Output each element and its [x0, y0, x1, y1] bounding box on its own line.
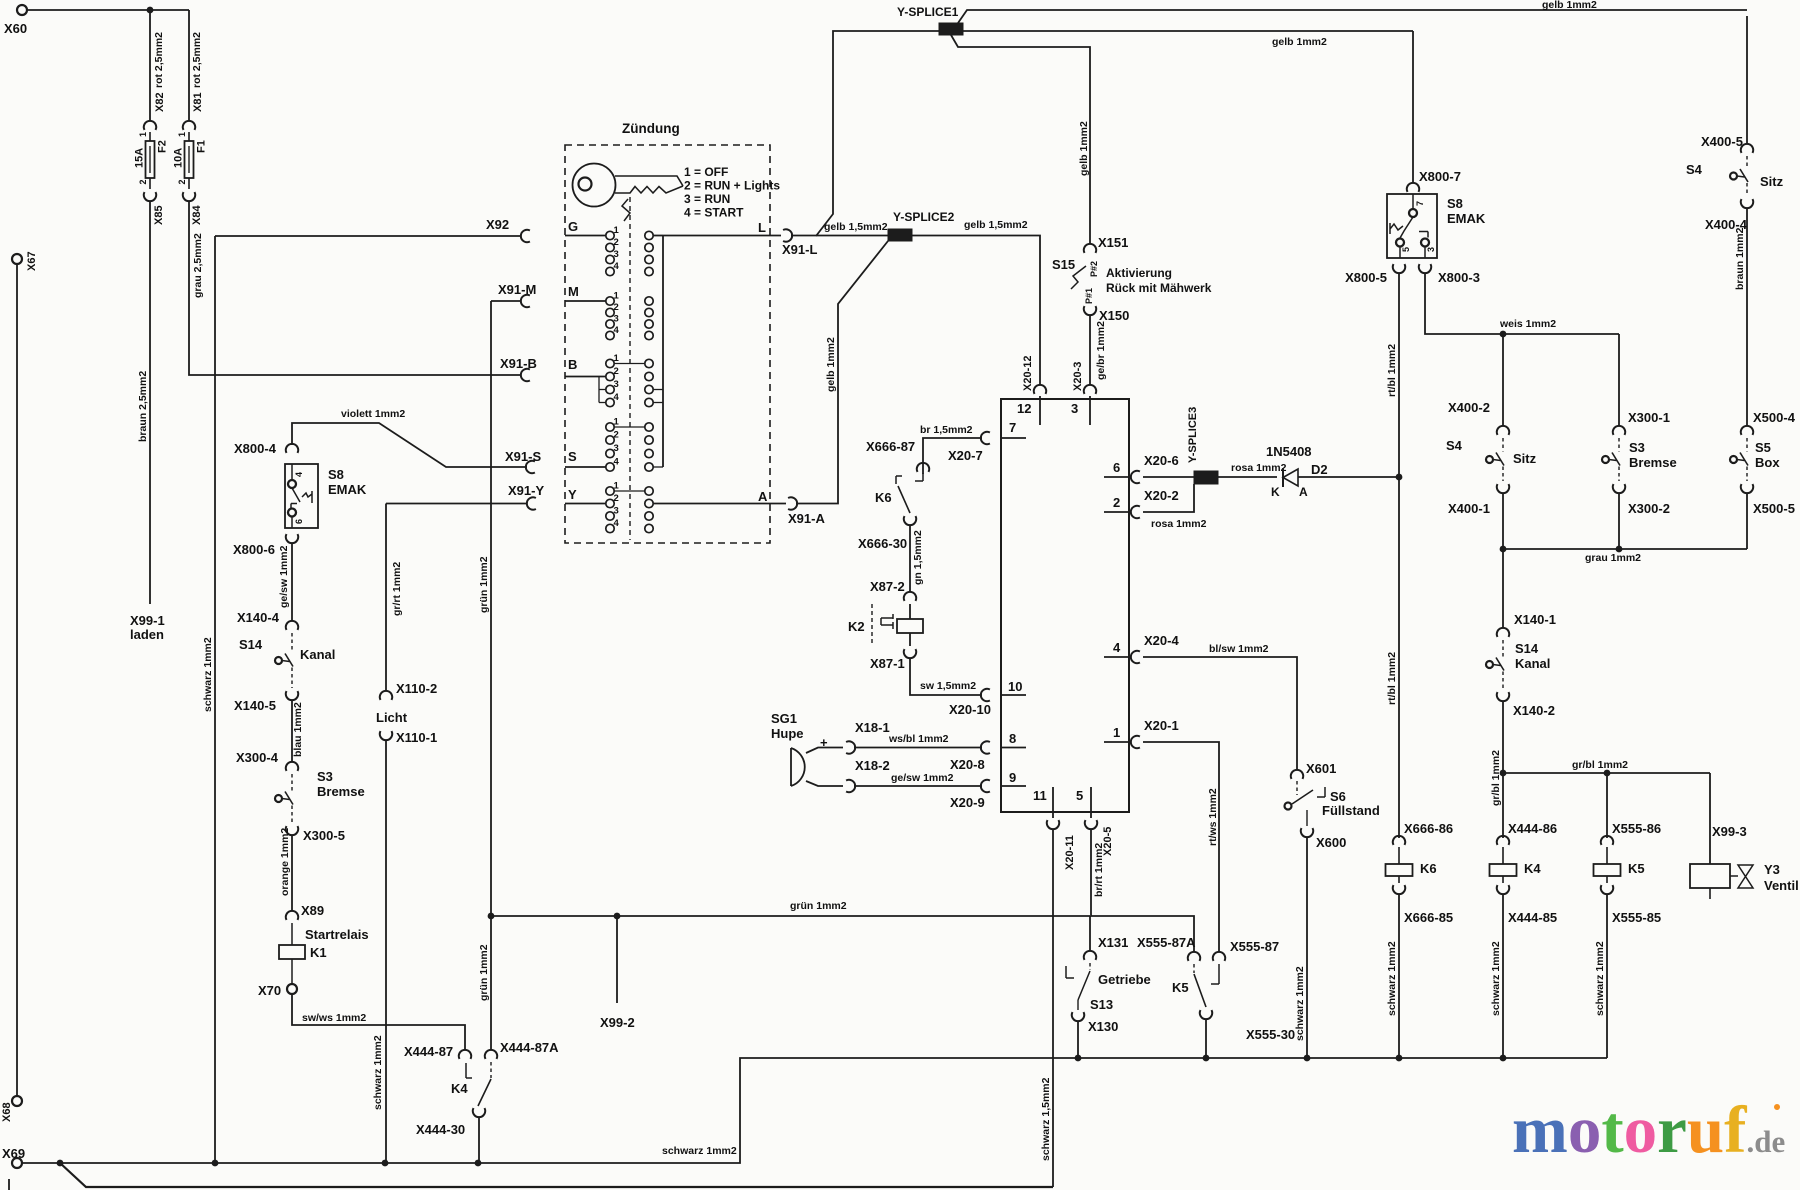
svg-text:ws/bl 1mm2: ws/bl 1mm2 — [888, 733, 949, 745]
svg-text:F1: F1 — [196, 140, 208, 153]
wire br/rt X20-5 to X555-87A — [1091, 829, 1194, 952]
svg-text:2: 2 — [614, 366, 619, 377]
svg-text:Licht: Licht — [376, 710, 408, 725]
svg-text:schwarz 1mm2: schwarz 1mm2 — [1594, 941, 1606, 1016]
wire X20-6 to Y-SPLICE3 — [1143, 476, 1194, 478]
svg-text:gr/rt 1mm2: gr/rt 1mm2 — [391, 562, 403, 616]
fuse F1 10A — [183, 121, 195, 130]
splice Y-SPLICE3 — [1194, 471, 1218, 484]
svg-text:2: 2 — [177, 179, 187, 184]
svg-text:Kanal: Kanal — [1515, 656, 1550, 671]
svg-text:X151: X151 — [1098, 235, 1128, 250]
svg-text:Getriebe: Getriebe — [1098, 972, 1151, 987]
pin 8 stub — [1001, 747, 1026, 749]
svg-text:P#2: P#2 — [1089, 261, 1099, 277]
svg-text:ge/br 1mm2: ge/br 1mm2 — [1095, 321, 1107, 380]
pin 11 stub — [1052, 787, 1054, 818]
wire gelb to X800-7 — [1412, 31, 1414, 183]
wire X300-2 to grau — [1618, 493, 1620, 549]
svg-text:schwarz 1mm2: schwarz 1mm2 — [372, 1035, 384, 1110]
svg-text:X60: X60 — [4, 21, 27, 36]
svg-text:gr/bl 1mm2: gr/bl 1mm2 — [1490, 750, 1502, 806]
wire horn to X18-1 — [806, 748, 843, 754]
svg-text:X91-Y: X91-Y — [508, 483, 544, 498]
svg-text:S14: S14 — [239, 637, 263, 652]
svg-text:K1: K1 — [310, 945, 327, 960]
svg-text:X666-87: X666-87 — [866, 439, 915, 454]
svg-text:9: 9 — [1009, 770, 1016, 785]
wire Y-SPLICE1 branch to X151 — [951, 35, 1090, 244]
svg-text:X91-S: X91-S — [505, 449, 541, 464]
connector X91-M — [521, 295, 530, 307]
relay contact K4 — [490, 1062, 492, 1078]
svg-text:S3: S3 — [1629, 440, 1645, 455]
svg-text:X20-8: X20-8 — [950, 757, 985, 772]
wire X92 row — [215, 235, 521, 237]
switch S4 Sitz (mid) — [1497, 426, 1509, 435]
wire D2 to rt/bl — [1298, 476, 1396, 478]
wire X666-85 to bus — [1398, 894, 1400, 1058]
svg-text:X110-1: X110-1 — [396, 730, 437, 745]
wire X130 to bus — [1077, 1021, 1079, 1058]
svg-text:K6: K6 — [875, 490, 892, 505]
svg-text:X85: X85 — [153, 205, 165, 225]
wire blau 1mm2 — [291, 700, 293, 762]
connector X18-2 — [846, 780, 855, 792]
wire B row3 link — [653, 389, 663, 391]
svg-text:X87-2: X87-2 — [870, 579, 905, 594]
svg-text:1: 1 — [1113, 725, 1120, 740]
wire X60 feed — [27, 9, 189, 11]
wire X67-X68 — [16, 264, 18, 1096]
key pointer — [622, 199, 630, 221]
svg-text:S8: S8 — [1447, 196, 1463, 211]
svg-text:X91-A: X91-A — [788, 511, 825, 526]
svg-text:4: 4 — [614, 457, 620, 468]
svg-text:weis 1mm2: weis 1mm2 — [1499, 318, 1556, 330]
svg-text:grün 1mm2: grün 1mm2 — [790, 900, 847, 912]
wire Y-SPLICE3 to D2 — [1218, 476, 1277, 478]
wire horn to X18-2 — [806, 781, 843, 786]
svg-text:X800-4: X800-4 — [234, 441, 277, 456]
svg-text:grau 1mm2: grau 1mm2 — [1585, 552, 1641, 564]
wire Y row1 link — [614, 490, 645, 492]
svg-text:Y-SPLICE3: Y-SPLICE3 — [1187, 407, 1199, 463]
svg-text:1: 1 — [177, 132, 187, 137]
svg-text:rosa 1mm2: rosa 1mm2 — [1151, 518, 1207, 530]
svg-text:X99-3: X99-3 — [1712, 824, 1747, 839]
svg-text:X400-5: X400-5 — [1701, 134, 1743, 149]
svg-text:gelb 1mm2: gelb 1mm2 — [1272, 36, 1327, 48]
svg-text:X140-5: X140-5 — [234, 698, 276, 713]
svg-text:A: A — [758, 489, 768, 504]
svg-text:orange 1mm2: orange 1mm2 — [279, 828, 291, 896]
wire X91-Y feed — [386, 503, 527, 505]
wire gruen X91-M to X444-87A — [490, 301, 492, 1050]
wire S row in — [565, 466, 606, 468]
relay contact K5 — [1193, 964, 1195, 973]
svg-text:S: S — [568, 449, 577, 464]
svg-text:1: 1 — [138, 132, 148, 137]
switch S14 Kanal (right) — [1497, 628, 1509, 637]
svg-text:Zündung: Zündung — [622, 121, 680, 136]
wire rt/bl X800-5 to K6 coil — [1398, 273, 1400, 838]
wire gr/rt to X110-2 — [385, 504, 387, 692]
connector X91-S — [526, 461, 535, 473]
wire X84 grau to X91-B — [189, 201, 521, 375]
svg-text:1: 1 — [614, 353, 620, 364]
connector X151 — [1084, 244, 1096, 253]
svg-text:11: 11 — [1033, 788, 1047, 803]
svg-text:SG1: SG1 — [771, 711, 797, 726]
svg-text:X140-1: X140-1 — [1514, 612, 1556, 627]
pin 7 stub — [1001, 437, 1026, 439]
svg-text:X444-87: X444-87 — [404, 1044, 453, 1059]
svg-text:X500-5: X500-5 — [1753, 501, 1795, 516]
svg-text:X400-2: X400-2 — [1448, 400, 1490, 415]
ignition contacts row M — [606, 297, 614, 305]
svg-text:X666-85: X666-85 — [1404, 910, 1453, 925]
switch S8 EMAK (bottom) — [285, 464, 318, 528]
svg-text:X18-1: X18-1 — [855, 720, 890, 735]
wire X91-M stub — [491, 300, 521, 302]
svg-text:X150: X150 — [1099, 308, 1129, 323]
pin 3 stub — [1089, 396, 1091, 425]
svg-text:S5: S5 — [1755, 440, 1771, 455]
terminal X69 — [12, 1158, 22, 1168]
svg-text:D2: D2 — [1311, 462, 1328, 477]
connector X91-Y — [527, 497, 536, 509]
wire Y row in — [565, 503, 606, 505]
svg-text:X500-4: X500-4 — [1753, 410, 1796, 425]
svg-text:10A: 10A — [173, 148, 185, 168]
wire stub bottom-left — [8, 1179, 10, 1190]
svg-text:X69: X69 — [2, 1146, 25, 1161]
svg-text:4: 4 — [614, 518, 620, 529]
connector X666-30 — [904, 516, 916, 525]
svg-text:Aktivierung: Aktivierung — [1106, 266, 1172, 280]
junction weis/S4 — [1500, 331, 1507, 338]
svg-text:2: 2 — [614, 237, 619, 248]
switch S6 Fuellstand — [1296, 781, 1298, 795]
relay coil K5 — [1601, 836, 1613, 845]
svg-text:K5: K5 — [1172, 980, 1189, 995]
relay coil K4 — [1497, 836, 1509, 845]
switch S14 Kanal (left) — [286, 621, 298, 630]
svg-text:schwarz 1mm2: schwarz 1mm2 — [1490, 941, 1502, 1016]
svg-text:X600: X600 — [1316, 835, 1346, 850]
wire bottom return — [60, 1163, 1053, 1187]
wire ge/sw X800-6 — [291, 543, 293, 621]
svg-text:X555-86: X555-86 — [1612, 821, 1661, 836]
svg-text:1: 1 — [614, 291, 620, 302]
svg-text:X300-4: X300-4 — [236, 750, 279, 765]
ignition contacts row G — [606, 231, 614, 239]
wire gelb to X400-5 — [1746, 16, 1748, 144]
connector X91-A — [788, 497, 797, 509]
svg-text:7: 7 — [1009, 420, 1016, 435]
svg-text:X67: X67 — [26, 251, 38, 271]
connector X444-87 — [459, 1050, 471, 1059]
svg-text:K: K — [1271, 485, 1280, 499]
svg-text:braun 2,5mm2: braun 2,5mm2 — [137, 371, 149, 442]
wire X91-A gelb — [796, 241, 888, 504]
connector X91-L — [783, 229, 792, 241]
svg-text:X20-6: X20-6 — [1144, 453, 1179, 468]
svg-text:Box: Box — [1755, 455, 1780, 470]
terminal X70 — [287, 984, 297, 994]
svg-text:rt/bl 1mm2: rt/bl 1mm2 — [1386, 652, 1398, 705]
wire braun X400-4 to X500-4 — [1746, 208, 1748, 426]
svg-text:10: 10 — [1008, 679, 1022, 694]
svg-text:sw/ws 1mm2: sw/ws 1mm2 — [302, 1012, 366, 1024]
junction bus/K5 contact — [1203, 1055, 1210, 1062]
connector X20-1 — [1131, 736, 1140, 748]
wire X150 to X20-3 — [1089, 315, 1091, 385]
wire X666-87 to X20-7 — [923, 438, 982, 474]
svg-text:Bremse: Bremse — [1629, 455, 1677, 470]
svg-text:X555-87A: X555-87A — [1137, 935, 1196, 950]
wire weis X800-3 — [1425, 273, 1619, 334]
svg-text:grün 1mm2: grün 1mm2 — [478, 556, 490, 613]
wire M row in — [565, 300, 606, 302]
junction X60/F2 — [147, 7, 154, 14]
svg-text:X20-3: X20-3 — [1072, 362, 1084, 391]
connector X555-87A — [1188, 952, 1200, 961]
svg-text:gelb 1,5mm2: gelb 1,5mm2 — [964, 219, 1028, 231]
svg-text:S3: S3 — [317, 769, 333, 784]
svg-text:X99-2: X99-2 — [600, 1015, 635, 1030]
key symbol — [573, 164, 616, 207]
wire weis to X300-1 — [1618, 334, 1620, 426]
wire B row1 link — [614, 363, 645, 365]
svg-text:X140-2: X140-2 — [1513, 703, 1555, 718]
wire X87-1 to X20-10 — [910, 658, 982, 695]
relay coil K1 — [291, 923, 293, 945]
svg-text:3: 3 — [1426, 247, 1436, 252]
svg-text:X68: X68 — [1, 1102, 13, 1122]
wire B row in + bracket — [565, 376, 606, 378]
wire X20-2 to Y-SPLICE3 — [1143, 484, 1194, 512]
wire schwarz 1mm2 vertical — [214, 236, 216, 1163]
svg-text:motoruf.de: motoruf.de — [1512, 1093, 1785, 1167]
connector X444-87A — [485, 1050, 497, 1059]
svg-text:X444-30: X444-30 — [416, 1122, 465, 1137]
connector X20-12 — [1034, 385, 1046, 394]
svg-text:X20-12: X20-12 — [1022, 356, 1034, 391]
svg-text:4: 4 — [614, 325, 620, 336]
ignition bus — [662, 236, 664, 468]
svg-text:X300-2: X300-2 — [1628, 501, 1670, 516]
wire X99-2 stub — [616, 916, 618, 1003]
wire Y-SPLICE1 to X800-7 — [963, 30, 1413, 32]
wire X91-L branch to Y-SPLICE1 — [816, 31, 939, 236]
svg-text:gelb 1mm2: gelb 1mm2 — [1542, 0, 1597, 11]
svg-text:3: 3 — [614, 314, 619, 325]
svg-text:K2: K2 — [848, 619, 865, 634]
svg-text:schwarz 1,5mm2: schwarz 1,5mm2 — [1040, 1077, 1052, 1161]
svg-text:K4: K4 — [1524, 861, 1541, 876]
wire orange 1mm2 — [291, 835, 293, 911]
relay K2 coil — [871, 604, 873, 646]
svg-text:Rück mit Mähwerk: Rück mit Mähwerk — [1106, 281, 1212, 295]
svg-text:3: 3 — [614, 443, 619, 454]
svg-text:X800-3: X800-3 — [1438, 270, 1480, 285]
wire X87-2 to K2 — [909, 604, 911, 619]
svg-text:K5: K5 — [1628, 861, 1645, 876]
svg-text:schwarz 1mm2: schwarz 1mm2 — [1386, 941, 1398, 1016]
svg-text:2: 2 — [138, 179, 148, 184]
svg-text:1 = OFF: 1 = OFF — [684, 165, 728, 179]
junction bus/K6 — [1396, 1055, 1403, 1062]
wire X444-85 to bus — [1502, 894, 1504, 1058]
svg-text:B: B — [568, 357, 577, 372]
wire X91-L to Y-SPLICE2 — [791, 235, 888, 237]
svg-text:4: 4 — [294, 472, 304, 477]
wire to X400-2 — [1502, 334, 1504, 426]
wire L row out — [663, 235, 781, 237]
svg-text:7: 7 — [1415, 201, 1425, 206]
wire Y row out to A — [653, 503, 786, 505]
svg-text:Bremse: Bremse — [317, 784, 365, 799]
svg-text:laden: laden — [130, 627, 164, 642]
svg-text:schwarz 1mm2: schwarz 1mm2 — [662, 1145, 737, 1157]
svg-text:8: 8 — [1009, 731, 1016, 746]
connector X89 — [286, 911, 298, 920]
K2 coil box — [897, 619, 923, 633]
svg-text:X91-L: X91-L — [782, 242, 817, 257]
svg-text:K6: K6 — [1420, 861, 1437, 876]
svg-text:G: G — [568, 219, 578, 234]
svg-text:4: 4 — [614, 261, 620, 272]
svg-text:Sitz: Sitz — [1513, 451, 1537, 466]
pin 4 stub — [1104, 656, 1129, 658]
ignition contacts row S — [606, 423, 614, 431]
connector X110-2 — [380, 691, 392, 700]
pin 2 stub — [1104, 511, 1129, 513]
junction bus/X444-30 — [475, 1160, 482, 1167]
switch S8 EMAK (top) — [1387, 194, 1437, 258]
svg-text:X18-2: X18-2 — [855, 758, 890, 773]
connector X20-8 — [981, 741, 990, 753]
svg-text:X110-2: X110-2 — [396, 681, 437, 696]
svg-text:X300-1: X300-1 — [1628, 410, 1670, 425]
svg-text:ge/sw 1mm2: ge/sw 1mm2 — [278, 545, 290, 608]
svg-text:12: 12 — [1017, 401, 1031, 416]
switch S3 Bremse (left) — [286, 762, 298, 771]
junction bus/S6 — [1304, 1055, 1311, 1062]
connector X600 — [1301, 828, 1313, 837]
svg-text:3 = RUN: 3 = RUN — [684, 192, 730, 206]
connector X92 — [521, 230, 530, 242]
wire X500-5 to grau — [1746, 493, 1748, 549]
ignition switch Zuendung box — [565, 145, 770, 543]
svg-text:2: 2 — [614, 302, 619, 313]
connector X20-6 — [1131, 471, 1140, 483]
svg-text:br/rt 1mm2: br/rt 1mm2 — [1093, 843, 1105, 897]
splice Y-SPLICE1 — [939, 23, 963, 35]
connector X20-10 — [981, 689, 990, 701]
svg-text:X555-85: X555-85 — [1612, 910, 1661, 925]
pin 5 stub — [1090, 787, 1092, 818]
svg-text:X444-86: X444-86 — [1508, 821, 1557, 836]
relay coil K6 — [1393, 836, 1405, 845]
svg-text:S13: S13 — [1090, 997, 1113, 1012]
svg-text:A: A — [1299, 485, 1308, 499]
wire rt/ws X20-1 to X555-87 — [1143, 742, 1219, 952]
svg-text:gn 1,5mm2: gn 1,5mm2 — [912, 530, 924, 585]
junction bus/X69 branch — [57, 1160, 64, 1167]
svg-text:grau 2,5mm2: grau 2,5mm2 — [192, 233, 204, 298]
svg-text:X555-87: X555-87 — [1230, 939, 1279, 954]
wire X18-2 to X20-9 — [854, 785, 982, 787]
svg-text:X800-6: X800-6 — [233, 542, 275, 557]
svg-text:X20-1: X20-1 — [1144, 718, 1179, 733]
pin 1 stub — [1104, 741, 1129, 743]
svg-text:X140-4: X140-4 — [237, 610, 280, 625]
svg-text:X20-10: X20-10 — [949, 702, 991, 717]
svg-text:S4: S4 — [1446, 438, 1463, 453]
svg-text:2 = RUN + Lights: 2 = RUN + Lights — [684, 179, 780, 193]
svg-text:gelb 1,5mm2: gelb 1,5mm2 — [824, 221, 888, 233]
svg-text:X300-5: X300-5 — [303, 828, 345, 843]
svg-text:4: 4 — [1113, 640, 1121, 655]
svg-text:5: 5 — [1401, 247, 1411, 252]
wire F1 drop — [188, 10, 190, 121]
connector X20-5 — [1085, 820, 1097, 829]
svg-text:X91-M: X91-M — [498, 282, 536, 297]
wire gr/bl 1mm2 — [1503, 772, 1710, 774]
svg-text:EMAK: EMAK — [1447, 211, 1486, 226]
svg-text:Kanal: Kanal — [300, 647, 335, 662]
svg-text:4 = START: 4 = START — [684, 206, 744, 220]
wire X20-11 schwarz 1,5mm2 — [1052, 829, 1054, 1187]
junction grau/S3 — [1616, 546, 1623, 553]
pin 6 stub — [1104, 476, 1129, 478]
svg-text:grün 1mm2: grün 1mm2 — [478, 944, 490, 1001]
svg-text:Ventil: Ventil — [1764, 878, 1799, 893]
connector X20-9 — [981, 780, 990, 792]
svg-text:X20-4: X20-4 — [1144, 633, 1179, 648]
svg-text:X99-1: X99-1 — [130, 613, 165, 628]
connector X87-1 — [904, 649, 916, 658]
svg-text:3: 3 — [614, 379, 619, 390]
wire S row1 link — [614, 426, 645, 428]
pin 9 stub — [1001, 785, 1026, 787]
svg-text:Hupe: Hupe — [771, 726, 804, 741]
connector X444-30 — [473, 1108, 485, 1117]
wire schwarz Licht to bus — [385, 740, 387, 1163]
svg-text:X444-87A: X444-87A — [500, 1040, 559, 1055]
svg-text:S14: S14 — [1515, 641, 1539, 656]
wire K2 to X87-1 — [909, 633, 911, 646]
svg-text:3: 3 — [614, 506, 619, 517]
connector X601 — [1291, 770, 1303, 779]
wire X666-30 to X87-2 — [909, 525, 911, 592]
valve coil Y3 — [1690, 864, 1730, 888]
svg-text:bl/sw 1mm2: bl/sw 1mm2 — [1209, 643, 1269, 655]
wire X555-85 to bus — [1606, 894, 1608, 1058]
connector X20-11 — [1047, 820, 1059, 829]
svg-text:M: M — [568, 284, 579, 299]
terminal X67 — [12, 254, 22, 264]
wire X18-1 to X20-8 — [854, 747, 982, 749]
connector X555-30 — [1200, 1010, 1212, 1019]
svg-text:Y: Y — [568, 487, 577, 502]
svg-text:1N5408: 1N5408 — [1266, 444, 1312, 459]
switch S13 Getriebe — [1089, 963, 1091, 970]
connector block X20 — [1001, 399, 1129, 812]
